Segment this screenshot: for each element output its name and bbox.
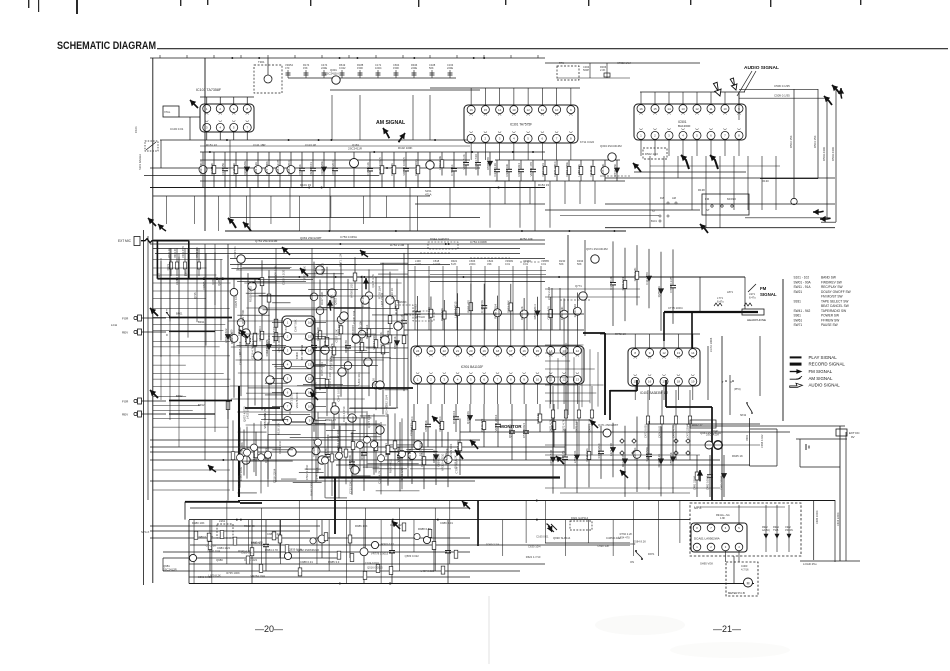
- svg-text:100/4: 100/4: [375, 66, 382, 70]
- svg-text:56K: 56K: [577, 262, 582, 266]
- svg-text:D471 4.7K: D471 4.7K: [549, 419, 553, 432]
- svg-text:220/4: 220/4: [469, 262, 476, 266]
- svg-text:BA1360F: BA1360F: [678, 124, 691, 128]
- svg-text:16: 16: [648, 380, 652, 384]
- svg-text:C113 470: C113 470: [645, 272, 649, 285]
- svg-text:Q184 0.01: Q184 0.01: [541, 163, 545, 177]
- svg-text:C163 220/4: C163 220/4: [597, 443, 601, 458]
- svg-text:R600 0.022: R600 0.022: [388, 458, 392, 473]
- svg-text:L871: L871: [727, 290, 733, 294]
- svg-text:14: 14: [549, 349, 553, 353]
- svg-text:R503 15K: R503 15K: [789, 135, 793, 148]
- svg-text:S101 DAGUA: S101 DAGUA: [138, 154, 142, 170]
- svg-text:R822 27: R822 27: [325, 418, 336, 422]
- svg-text:SP42: SP42: [740, 414, 747, 417]
- svg-text:KF302 1AM: KF302 1AM: [617, 61, 631, 65]
- svg-text:R984 2.7K: R984 2.7K: [265, 548, 278, 552]
- svg-text:FWD/REV SW: FWD/REV SW: [821, 280, 842, 284]
- svg-text:REV: REV: [122, 413, 128, 417]
- svg-text:R614 10/4: R614 10/4: [452, 410, 456, 424]
- svg-text:220E: 220E: [321, 66, 327, 70]
- svg-text:C686 2.2K: C686 2.2K: [238, 352, 242, 365]
- svg-text:C373 8.2K: C373 8.2K: [609, 276, 613, 290]
- svg-text:REV: REV: [122, 331, 128, 335]
- svg-text:0.01: 0.01: [541, 262, 547, 266]
- svg-text:C784 1K: C784 1K: [450, 164, 454, 175]
- svg-text:D584 8.2K: D584 8.2K: [633, 539, 646, 543]
- svg-text:L173 100/4: L173 100/4: [330, 355, 334, 369]
- svg-text:D918 2.2K: D918 2.2K: [657, 454, 661, 468]
- svg-text:REC/PLAY SW: REC/PLAY SW: [821, 285, 843, 289]
- svg-text:—21—: —21—: [713, 624, 741, 634]
- svg-text:0.01: 0.01: [523, 262, 529, 266]
- svg-text:C799 2.2K: C799 2.2K: [633, 268, 637, 282]
- svg-text:220E: 220E: [411, 66, 417, 70]
- svg-text:R557 33K: R557 33K: [456, 440, 460, 453]
- svg-text:C126 1K: C126 1K: [390, 288, 394, 299]
- svg-text:R939 150K: R939 150K: [241, 310, 245, 324]
- svg-text:VR178 100K: VR178 100K: [295, 392, 299, 408]
- svg-text:R671 2.2K: R671 2.2K: [338, 253, 342, 266]
- svg-text:56K: 56K: [429, 66, 434, 70]
- svg-text:C991 1/10: C991 1/10: [400, 467, 404, 480]
- svg-text:ST: ST: [706, 208, 710, 212]
- svg-text:24: 24: [416, 349, 420, 353]
- svg-text:Q205 220E: Q205 220E: [243, 161, 247, 176]
- svg-text:VR685: VR685: [202, 281, 206, 290]
- svg-text:R581 100/4: R581 100/4: [258, 326, 262, 341]
- svg-text:16: 16: [308, 321, 312, 325]
- svg-text:CT75 100/4: CT75 100/4: [668, 306, 683, 310]
- svg-text:C935 4.7K: C935 4.7K: [409, 423, 413, 436]
- svg-text:Q751 2SC3413M: Q751 2SC3413M: [255, 239, 278, 243]
- svg-text:18: 18: [496, 349, 500, 353]
- svg-text:11: 11: [549, 378, 552, 382]
- svg-text:AUDIO SIGNAL: AUDIO SIGNAL: [744, 65, 779, 71]
- svg-text:R752 10K: R752 10K: [520, 237, 533, 241]
- svg-text:TAPE/RADIO SW: TAPE/RADIO SW: [821, 309, 846, 313]
- svg-text:21: 21: [456, 349, 460, 353]
- svg-text:BEAT CANCEL SW: BEAT CANCEL SW: [821, 304, 849, 308]
- svg-text:0.022: 0.022: [339, 66, 346, 70]
- svg-text:Q846 470: Q846 470: [480, 418, 484, 431]
- svg-text:D608 0.1/35: D608 0.1/35: [276, 159, 280, 175]
- svg-text:C901 47/4: C901 47/4: [182, 246, 185, 258]
- svg-text:13: 13: [308, 363, 312, 367]
- svg-text:15: 15: [653, 107, 657, 111]
- svg-text:C647 1K: C647 1K: [589, 165, 593, 176]
- svg-text:Q771: Q771: [575, 284, 582, 288]
- svg-text:IC901: IC901: [295, 352, 299, 360]
- svg-text:R102 100K: R102 100K: [398, 146, 413, 150]
- svg-text:C270 3.3K: C270 3.3K: [493, 163, 497, 177]
- svg-text:R732 56K: R732 56K: [613, 164, 617, 177]
- svg-text:CA7A 100/4: CA7A 100/4: [709, 337, 713, 352]
- svg-text:C506 0.1/35: C506 0.1/35: [774, 84, 790, 88]
- svg-text:10: 10: [723, 107, 727, 111]
- svg-text:VR914 33K: VR914 33K: [372, 335, 376, 350]
- svg-text:Q839 8.2K: Q839 8.2K: [289, 547, 302, 551]
- svg-text:C713 33K: C713 33K: [349, 481, 353, 494]
- svg-text:22: 22: [443, 349, 447, 353]
- svg-text:12: 12: [526, 108, 530, 112]
- svg-text:L860 10/4: L860 10/4: [357, 372, 361, 385]
- svg-text:C376 0.0015: C376 0.0015: [414, 159, 418, 176]
- svg-text:Q900 10/4: Q900 10/4: [508, 424, 512, 438]
- svg-text:LOAD 25u: LOAD 25u: [803, 562, 817, 566]
- svg-text:10: 10: [308, 405, 312, 409]
- svg-text:C753 0.045A: C753 0.045A: [340, 235, 357, 239]
- svg-text:Q990 SLP114: Q990 SLP114: [553, 536, 571, 540]
- svg-text:C426 33K: C426 33K: [601, 164, 605, 177]
- svg-text:GAP203: GAP203: [397, 301, 407, 304]
- svg-text:R50A 240K: R50A 240K: [822, 147, 826, 161]
- svg-text:220E: 220E: [447, 66, 453, 70]
- svg-text:C475 4.7/10: C475 4.7/10: [672, 423, 676, 438]
- svg-text:R617 3.3K: R617 3.3K: [320, 292, 324, 305]
- svg-text:VR264 10/4: VR264 10/4: [251, 574, 266, 578]
- svg-text:C430 10/4: C430 10/4: [352, 310, 356, 323]
- svg-text:D369 2.2/4: D369 2.2/4: [486, 543, 500, 547]
- svg-text:R50A 240K: R50A 240K: [831, 147, 835, 161]
- svg-text:VR556 220E: VR556 220E: [263, 413, 267, 429]
- svg-text:C459 1/10: C459 1/10: [573, 304, 577, 318]
- svg-text:C164 100/4: C164 100/4: [365, 561, 379, 565]
- svg-text:R138: R138: [698, 188, 705, 192]
- svg-text:TS/B: TS/B: [773, 529, 779, 532]
- svg-text:R349 4.7K: R349 4.7K: [238, 549, 251, 553]
- svg-text:TP6: TP6: [559, 61, 564, 65]
- svg-text:Q286: Q286: [217, 279, 221, 286]
- svg-text:C378 3.3K: C378 3.3K: [560, 306, 564, 320]
- svg-text:13: 13: [576, 378, 580, 382]
- svg-text:15K: 15K: [303, 66, 308, 70]
- svg-text:R151 22: R151 22: [206, 143, 217, 147]
- svg-text:C951 1/10: C951 1/10: [278, 440, 282, 453]
- svg-text:C792 470: C792 470: [361, 294, 365, 307]
- svg-text:C996 0.022: C996 0.022: [760, 434, 764, 448]
- svg-text:C472 220/4: C472 220/4: [686, 424, 690, 438]
- svg-text:FM: FM: [660, 196, 664, 200]
- svg-text:C869 33K: C869 33K: [393, 336, 397, 349]
- svg-text:VR272 8.2K: VR272 8.2K: [462, 154, 466, 170]
- svg-text:ON: ON: [630, 560, 634, 564]
- svg-text:R770 1K: R770 1K: [168, 248, 171, 258]
- svg-text:C754 0.0068: C754 0.0068: [470, 240, 487, 244]
- svg-text:R471 15K: R471 15K: [575, 420, 579, 432]
- svg-text:4.7/10: 4.7/10: [433, 262, 441, 266]
- svg-text:150K: 150K: [393, 66, 399, 70]
- svg-text:D183 220E: D183 220E: [320, 161, 324, 176]
- svg-text:S961: S961: [794, 314, 802, 318]
- svg-text:D913 0.01: D913 0.01: [309, 162, 313, 176]
- svg-text:SW61: SW61: [794, 318, 803, 322]
- svg-text:R128 10/4: R128 10/4: [377, 286, 381, 299]
- svg-text:Q411 0.01: Q411 0.01: [585, 448, 589, 462]
- svg-text:BR11: BR11: [198, 320, 205, 324]
- svg-text:C882 15K: C882 15K: [390, 163, 394, 176]
- svg-text:Q962 0.01: Q962 0.01: [333, 291, 337, 305]
- svg-text:471A: 471A: [425, 192, 432, 196]
- svg-text:R622 4.7/10: R622 4.7/10: [526, 555, 541, 559]
- svg-text:R331 0.01: R331 0.01: [382, 542, 395, 546]
- svg-text:33K: 33K: [487, 262, 492, 266]
- svg-text:15: 15: [308, 335, 312, 339]
- svg-text:SW21: SW21: [794, 290, 803, 294]
- svg-text:12: 12: [662, 351, 666, 355]
- svg-text:15: 15: [536, 349, 540, 353]
- svg-text:C187: C187: [175, 278, 179, 285]
- svg-text:VR310 4.7/10: VR310 4.7/10: [441, 453, 445, 471]
- svg-text:2.2/4: 2.2/4: [415, 262, 421, 266]
- svg-text:POWER SW: POWER SW: [821, 314, 839, 318]
- svg-text:11: 11: [709, 107, 712, 111]
- svg-text:R133 100/4: R133 100/4: [397, 447, 401, 462]
- svg-text:C989 0.01: C989 0.01: [440, 521, 453, 525]
- svg-text:2SC2411N: 2SC2411N: [325, 72, 338, 76]
- svg-text:C404 220/4: C404 220/4: [836, 512, 840, 526]
- svg-text:MONO: MONO: [727, 197, 737, 201]
- svg-text:R765 2.2/4: R765 2.2/4: [320, 362, 324, 376]
- svg-text:VR778 0.0015: VR778 0.0015: [371, 552, 389, 556]
- svg-text:R649 220E: R649 220E: [310, 482, 314, 496]
- svg-text:12: 12: [576, 349, 580, 353]
- svg-text:R606 220/4: R606 220/4: [331, 160, 335, 175]
- svg-text:FM: FM: [705, 197, 710, 201]
- svg-text:R781 0.01: R781 0.01: [621, 277, 625, 291]
- svg-text:56K: 56K: [559, 262, 564, 266]
- svg-text:FM SIGNAL: FM SIGNAL: [809, 369, 833, 374]
- svg-text:C758 100/4: C758 100/4: [455, 459, 459, 474]
- svg-text:8.47u: 8.47u: [717, 300, 724, 304]
- svg-text:C111 18P: C111 18P: [253, 143, 265, 147]
- svg-text:D971: D971: [648, 552, 655, 556]
- svg-text:VR129 0.01: VR129 0.01: [449, 443, 453, 458]
- svg-text:R898 10K: R898 10K: [237, 441, 241, 454]
- svg-text:14: 14: [308, 349, 312, 353]
- svg-text:FM MO/ST SW: FM MO/ST SW: [821, 295, 843, 299]
- svg-text:C463: C463: [741, 564, 748, 568]
- svg-text:C415 15K: C415 15K: [232, 163, 236, 176]
- svg-text:R130: R130: [762, 179, 769, 183]
- svg-text:14: 14: [498, 108, 502, 112]
- svg-text:METER P.C.B: METER P.C.B: [728, 591, 745, 595]
- svg-text:C909 3.3K: C909 3.3K: [273, 265, 277, 278]
- svg-text:C150 100/4: C150 100/4: [199, 160, 203, 175]
- svg-text:13: 13: [681, 107, 685, 111]
- svg-text:SIGNAL: SIGNAL: [760, 292, 777, 297]
- svg-text:RECORD SIGNAL: RECORD SIGNAL: [809, 362, 846, 367]
- svg-text:FOR: FOR: [122, 400, 129, 404]
- svg-text:SW41 - 942: SW41 - 942: [794, 309, 811, 313]
- svg-text:MPS: MPS: [694, 506, 702, 510]
- svg-text:R985 3.3: R985 3.3: [328, 560, 340, 564]
- svg-text:Q304 2SC3413M: Q304 2SC3413M: [600, 144, 622, 148]
- svg-text:R: R: [730, 380, 732, 384]
- svg-text:2.3K: 2.3K: [600, 68, 606, 72]
- svg-text:15: 15: [484, 108, 488, 112]
- svg-text:R955 470: R955 470: [467, 300, 471, 313]
- svg-text:R385 10/4: R385 10/4: [517, 163, 521, 177]
- svg-text:R309 100/4: R309 100/4: [493, 303, 497, 318]
- svg-text:DOLBY ON/OFF SW: DOLBY ON/OFF SW: [821, 290, 851, 294]
- svg-text:R753 3.3M: R753 3.3M: [390, 243, 405, 247]
- svg-text:VR580 1/10: VR580 1/10: [350, 283, 354, 298]
- svg-text:R547 33K: R547 33K: [336, 429, 340, 442]
- svg-text:AM: AM: [672, 196, 676, 200]
- svg-text:C174 2.2K: C174 2.2K: [366, 162, 370, 176]
- svg-text:C630 10/4: C630 10/4: [528, 545, 541, 549]
- svg-text:FOR: FOR: [122, 317, 129, 321]
- svg-text:D153 470: D153 470: [230, 329, 234, 342]
- svg-text:C272 4.7K: C272 4.7K: [330, 343, 334, 357]
- svg-text:C988 0.31: C988 0.31: [300, 560, 313, 564]
- svg-text:L971: L971: [749, 292, 755, 296]
- svg-text:C101: C101: [134, 126, 138, 133]
- svg-text:SP4-X: SP4-X: [141, 530, 149, 534]
- svg-text:R: R: [166, 334, 168, 337]
- svg-text:L834 470: L834 470: [618, 535, 630, 539]
- svg-text:R150 2.2/4: R150 2.2/4: [365, 324, 369, 339]
- svg-text:R922 27: R922 27: [692, 423, 703, 427]
- svg-text:18: 18: [677, 380, 681, 384]
- svg-text:R384 33K: R384 33K: [505, 164, 509, 177]
- svg-text:PAUSE SW: PAUSE SW: [821, 323, 838, 327]
- svg-text:R101 33: R101 33: [300, 183, 311, 187]
- svg-text:EXT MIC: EXT MIC: [118, 239, 132, 243]
- svg-text:D507 470: D507 470: [486, 157, 490, 170]
- svg-text:R314 4.7/10: R314 4.7/10: [265, 341, 269, 357]
- svg-text:C816 4.7/10: C816 4.7/10: [250, 344, 254, 360]
- svg-text:Q125 4.7K: Q125 4.7K: [371, 274, 375, 288]
- svg-text:K711 0.022: K711 0.022: [580, 140, 595, 144]
- svg-text:470: 470: [285, 66, 290, 70]
- svg-text:8.2K: 8.2K: [451, 262, 457, 266]
- svg-text:VR708 0.0015: VR708 0.0015: [402, 157, 406, 176]
- svg-text:16: 16: [469, 108, 473, 112]
- svg-text:TAPE SELECT SW: TAPE SELECT SW: [821, 299, 848, 303]
- svg-text:16: 16: [522, 349, 526, 353]
- svg-text:D980 10K: D980 10K: [192, 521, 205, 525]
- svg-text:L661 1K: L661 1K: [312, 266, 316, 277]
- svg-text:HEADPHONE: HEADPHONE: [747, 318, 766, 322]
- svg-text:R519 4.7/10: R519 4.7/10: [272, 326, 276, 342]
- svg-text:VR799 470: VR799 470: [529, 162, 533, 177]
- svg-text:D502 1/10: D502 1/10: [645, 152, 658, 156]
- svg-text:13: 13: [562, 349, 566, 353]
- svg-text:—20—: —20—: [255, 624, 283, 634]
- svg-text:C552 15K: C552 15K: [669, 452, 673, 465]
- svg-text:10: 10: [555, 108, 559, 112]
- svg-text:19: 19: [483, 349, 487, 353]
- svg-text:Q980: Q980: [216, 558, 223, 562]
- svg-text:C587 8.2K: C587 8.2K: [335, 329, 339, 342]
- svg-text:D94A GAP203: D94A GAP203: [430, 237, 449, 241]
- svg-text:FM: FM: [760, 286, 767, 291]
- svg-text:T301: T301: [258, 60, 265, 64]
- svg-text:R951 220E: R951 220E: [565, 162, 569, 177]
- svg-text:S931: S931: [794, 299, 802, 303]
- svg-text:SW01 - 90A: SW01 - 90A: [794, 280, 812, 284]
- svg-text:D625 10/4: D625 10/4: [234, 294, 238, 307]
- svg-text:23: 23: [429, 349, 433, 353]
- svg-text:19: 19: [691, 380, 695, 384]
- svg-text:R986 10K: R986 10K: [355, 524, 368, 528]
- svg-text:L438 10K: L438 10K: [359, 321, 363, 333]
- svg-text:L761 0.0015: L761 0.0015: [277, 336, 281, 352]
- svg-text:Q669 56K: Q669 56K: [440, 308, 444, 321]
- svg-text:D774 100/4: D774 100/4: [553, 161, 557, 176]
- svg-text:L989 0.01: L989 0.01: [408, 448, 412, 461]
- svg-text:C484 100/4: C484 100/4: [815, 510, 819, 524]
- svg-text:R982 33: R982 33: [244, 524, 255, 528]
- svg-text:C509 0.1/35: C509 0.1/35: [774, 94, 790, 98]
- svg-text:BAND SW: BAND SW: [821, 276, 836, 280]
- svg-text:C590 33K: C590 33K: [597, 544, 609, 548]
- svg-text:SW11 - 91A: SW11 - 91A: [794, 285, 812, 289]
- svg-text:R370 150K: R370 150K: [237, 475, 241, 489]
- svg-text:IC901 BA1102F: IC901 BA1102F: [461, 365, 483, 369]
- svg-text:C165 0.01: C165 0.01: [536, 534, 549, 538]
- svg-text:LCH: LCH: [111, 323, 117, 327]
- svg-text:16: 16: [639, 107, 643, 111]
- svg-text:9V: 9V: [851, 435, 855, 439]
- svg-text:C275 100K: C275 100K: [315, 467, 319, 481]
- svg-text:BR01: BR01: [176, 312, 183, 316]
- svg-text:Q256 1K: Q256 1K: [657, 286, 661, 297]
- svg-text:L190 1K: L190 1K: [372, 378, 376, 389]
- svg-text:R533 0.0015: R533 0.0015: [248, 286, 252, 302]
- svg-text:D481 2.2K: D481 2.2K: [254, 162, 258, 176]
- svg-text:C677 100K: C677 100K: [265, 161, 269, 176]
- svg-text:12: 12: [308, 377, 312, 381]
- svg-text:560P: 560P: [583, 68, 589, 72]
- svg-text:Q941 2SC2411R: Q941 2SC2411R: [700, 431, 721, 435]
- svg-text:C189 15K: C189 15K: [480, 300, 484, 313]
- svg-text:VR551 220/4: VR551 220/4: [494, 414, 498, 431]
- svg-text:C318 220/4: C318 220/4: [273, 468, 277, 483]
- svg-text:C113 1P: C113 1P: [305, 143, 316, 147]
- svg-text:R760 2.2K: R760 2.2K: [620, 532, 633, 536]
- svg-text:C502 4.7/10: C502 4.7/10: [305, 464, 309, 480]
- svg-text:R403 470: R403 470: [251, 540, 263, 544]
- svg-text:Q971 2SC3413M: Q971 2SC3413M: [586, 247, 608, 251]
- svg-text:L457 0.022: L457 0.022: [421, 569, 435, 573]
- svg-text:C626 56K: C626 56K: [633, 447, 637, 460]
- svg-text:C895 220/4: C895 220/4: [287, 160, 291, 175]
- svg-text:D460 4.7/10: D460 4.7/10: [549, 449, 553, 465]
- svg-text:C647 56K: C647 56K: [294, 319, 298, 332]
- svg-text:D981: D981: [746, 434, 749, 441]
- svg-text:D138 15K: D138 15K: [276, 422, 280, 435]
- svg-text:L590 0.022: L590 0.022: [224, 328, 228, 343]
- svg-text:B101: B101: [651, 220, 657, 223]
- svg-text:L771: L771: [717, 296, 723, 300]
- svg-text:(PH4): (PH4): [734, 388, 741, 391]
- svg-text:R597 1K: R597 1K: [424, 420, 428, 431]
- svg-text:C297 150K: C297 150K: [645, 447, 649, 462]
- svg-text:4.7/16: 4.7/16: [741, 568, 749, 572]
- svg-text:13: 13: [512, 108, 516, 112]
- svg-text:M: M: [747, 581, 750, 585]
- svg-text:14: 14: [691, 351, 695, 355]
- svg-text:12: 12: [695, 107, 699, 111]
- svg-text:20: 20: [469, 349, 473, 353]
- svg-text:C247 15K: C247 15K: [221, 163, 225, 176]
- svg-text:C301 4.7/10: C301 4.7/10: [342, 406, 346, 422]
- svg-text:C773 2.2/4: C773 2.2/4: [547, 286, 551, 300]
- svg-text:10: 10: [536, 378, 540, 382]
